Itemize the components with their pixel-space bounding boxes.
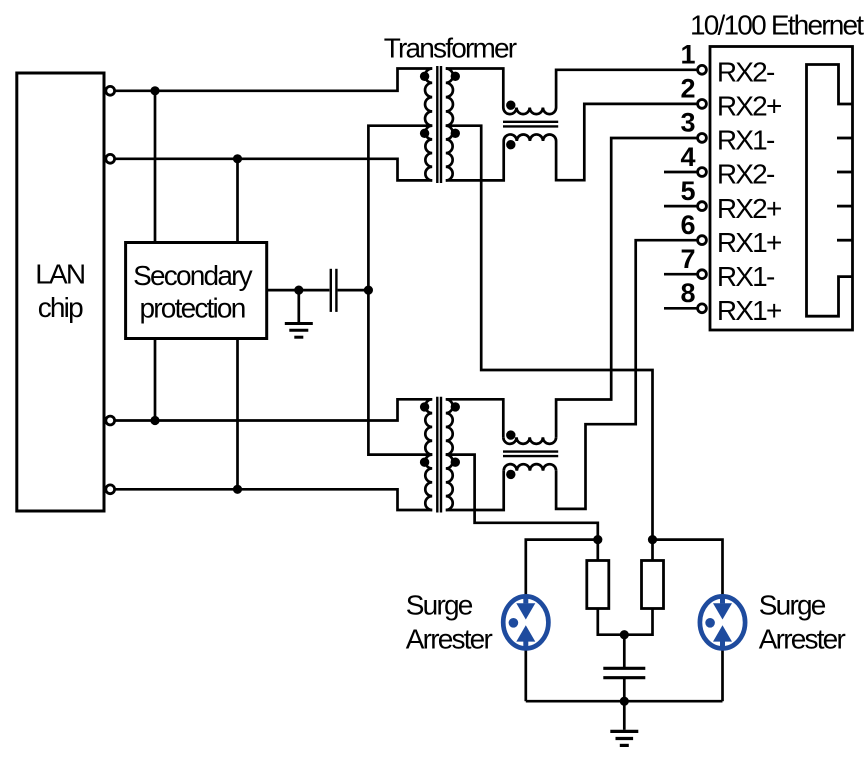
Ethernet connector pin 8 terminal <box>698 304 707 313</box>
pin number 4 <box>680 142 695 172</box>
transformer T2 primary winding top <box>425 399 432 454</box>
svg-text:RX1-: RX1- <box>717 261 775 292</box>
wire stub connector pin 4 <box>664 171 702 174</box>
wire T2 secondary bottom to choke L2 <box>446 471 504 510</box>
choke L1 winding top <box>503 108 556 115</box>
choke L1 polarity dots <box>506 101 515 150</box>
node B junction (right) <box>648 535 657 544</box>
svg-text:Surge: Surge <box>406 589 473 620</box>
wire surge arrester SA2 bottom <box>721 648 724 701</box>
svg-text:Surge: Surge <box>759 589 826 620</box>
pin label RX2- (pin 4) <box>717 159 775 190</box>
wire node B to resistor R2 <box>651 540 654 561</box>
Ethernet connector pin 6 terminal <box>698 236 707 245</box>
secondary protection U2 box <box>126 243 267 339</box>
resistor R1 <box>587 561 609 609</box>
svg-text:RX2+: RX2+ <box>717 91 781 122</box>
wire connector pin 3 to choke L2 top <box>556 138 702 437</box>
svg-text:RX1+: RX1+ <box>717 227 781 258</box>
label Transformer <box>384 32 517 63</box>
svg-text:chip: chip <box>38 292 83 323</box>
LAN chip pin 3 <box>106 416 115 425</box>
ground GND2 <box>610 731 638 745</box>
wire choke L1 top to connector pin 1 <box>556 70 702 108</box>
wire surge arrester SA1 top <box>526 540 598 597</box>
wire T2 secondary top to choke L2 <box>446 399 504 437</box>
svg-text:RX1-: RX1- <box>717 125 775 156</box>
wire secondary protection lower pin B <box>236 339 239 490</box>
RJ45 jack contact profile <box>807 65 853 317</box>
pin number 6 <box>680 210 695 240</box>
LAN chip pin 2 <box>106 154 115 163</box>
node junction ground GND1 <box>294 286 303 295</box>
svg-text:Transformer: Transformer <box>384 32 517 63</box>
capacitor C2 <box>603 668 645 677</box>
wire LAN pin1 to transformer T1 primary top <box>112 69 432 91</box>
svg-text:6: 6 <box>680 210 695 240</box>
wire LAN pin3 to transformer T2 primary top <box>112 399 432 420</box>
svg-text:Arrester: Arrester <box>759 624 846 655</box>
svg-text:8: 8 <box>680 278 695 308</box>
Ethernet connector pin 4 terminal <box>698 168 707 177</box>
wire bottom rail <box>526 700 723 703</box>
pin label RX1- (pin 7) <box>717 261 775 292</box>
transformer T1 secondary winding top <box>446 69 453 126</box>
pin number 5 <box>680 176 695 206</box>
choke L2 polarity dots <box>506 430 515 479</box>
label LAN chip <box>35 258 84 323</box>
transformer T2 secondary winding top <box>446 399 453 454</box>
svg-text:Secondary: Secondary <box>133 260 252 291</box>
wire T1 right center tap to surge node B <box>446 126 653 540</box>
svg-text:RX1+: RX1+ <box>717 295 781 326</box>
node A junction (left) <box>593 535 602 544</box>
svg-text:1: 1 <box>680 40 695 70</box>
ground GND1 stub <box>297 290 300 322</box>
Ethernet connector J1 box <box>710 47 853 331</box>
node junction pin1/protection <box>150 86 159 95</box>
surge arrester SA1 <box>503 596 548 648</box>
wire T1 secondary top to choke L1 <box>446 69 504 108</box>
LAN chip U1 box <box>17 73 104 511</box>
node junction pin2/protection <box>233 154 242 163</box>
transformer T1 primary winding bottom <box>425 126 432 181</box>
transformer T2 core <box>437 397 441 513</box>
transformer T1 secondary winding bottom <box>446 126 453 181</box>
Ethernet connector pin 1 terminal <box>698 65 707 74</box>
node junction pin4/protection <box>233 485 242 494</box>
svg-text:RX2-: RX2- <box>717 159 775 190</box>
wire stub connector pin 7 <box>664 273 702 276</box>
svg-text:protection: protection <box>140 292 245 323</box>
wire connector pin 6 to choke L2 bottom <box>556 240 702 509</box>
wire T2 right center tap to surge node A <box>446 455 598 540</box>
Ethernet connector pin 5 terminal <box>698 202 707 211</box>
svg-text:5: 5 <box>680 176 695 206</box>
transformer T1 core <box>437 66 441 183</box>
svg-text:2: 2 <box>680 74 695 104</box>
svg-text:4: 4 <box>680 142 695 172</box>
ground GND2 stub <box>623 701 626 730</box>
pin label RX2- (pin 1) <box>717 57 775 88</box>
svg-text:LAN: LAN <box>35 258 84 289</box>
pin label RX2+ (pin 5) <box>717 193 781 224</box>
pin number 3 <box>680 108 695 138</box>
transformer T1 polarity dots <box>420 72 460 138</box>
wire secondary protection lower pin A <box>154 339 157 421</box>
label 10/100 Ethernet <box>690 10 864 41</box>
surge arrester SA2 <box>700 596 745 648</box>
resistor R2 <box>642 561 664 609</box>
pin label RX1- (pin 3) <box>717 125 775 156</box>
wire secondary protection upper pin A <box>154 91 157 243</box>
Ethernet connector pin 3 terminal <box>698 134 707 143</box>
node junction capacitor C1 / center-tap rail <box>364 286 373 295</box>
wire secondary protection upper pin B <box>236 159 239 243</box>
svg-text:RX2+: RX2+ <box>717 193 781 224</box>
pin label RX1+ (pin 8) <box>717 295 781 326</box>
wire surge arrester SA1 bottom <box>524 648 527 701</box>
node junction pin3/protection <box>150 416 159 425</box>
svg-text:3: 3 <box>680 108 695 138</box>
transformer T2 secondary winding bottom <box>446 455 453 510</box>
choke L2 winding top <box>503 437 556 444</box>
svg-text:Arrester: Arrester <box>406 624 493 655</box>
wire stub connector pin 5 <box>664 205 702 208</box>
svg-text:RX2-: RX2- <box>717 57 775 88</box>
RJ45 jack contact ticks <box>837 138 853 240</box>
wire resistor bottoms junction <box>598 609 653 635</box>
transformer T2 polarity dots <box>420 402 460 467</box>
pin number 2 <box>680 74 695 104</box>
label Surge Arrester (right) <box>759 589 846 654</box>
wire node A to resistor R1 <box>596 540 599 561</box>
transformer T2 primary winding bottom <box>425 455 432 510</box>
transformer T1 primary winding top <box>425 69 432 126</box>
choke L1 winding bottom <box>504 134 556 141</box>
LAN chip pin 1 <box>106 86 115 95</box>
pin label RX1+ (pin 6) <box>717 227 781 258</box>
Ethernet connector pin 2 terminal <box>698 100 707 109</box>
wire capacitor C2 to bottom rail <box>623 679 626 701</box>
wire LAN pin4 to transformer T2 primary bottom <box>112 489 432 510</box>
pin number 7 <box>680 244 695 274</box>
LAN chip pin 4 <box>106 485 115 494</box>
label Secondary protection <box>133 260 252 323</box>
capacitor C1 <box>331 269 337 312</box>
wire T1 secondary bottom to choke L1 <box>446 141 504 180</box>
wire T1 left center tap down to T2 left center tap <box>368 126 432 455</box>
wire LAN pin2 to transformer T1 primary bottom <box>112 159 432 181</box>
wire stub connector pin 8 <box>664 307 702 310</box>
svg-text:7: 7 <box>680 244 695 274</box>
Ethernet connector pin 7 terminal <box>698 270 707 279</box>
wire choke L1 bottom to connector pin 2 <box>556 104 702 180</box>
wire capacitor C1 to center-tap rail <box>338 289 369 292</box>
wire junction to capacitor C2 <box>623 635 626 667</box>
choke L2 winding bottom <box>504 464 556 471</box>
choke L2 core <box>503 452 558 457</box>
node junction bottom rail <box>620 697 629 706</box>
node junction below resistors <box>620 630 629 639</box>
pin label RX2+ (pin 2) <box>717 91 781 122</box>
wire secondary protection to ground/capacitor node <box>267 289 330 292</box>
label Surge Arrester (left) <box>406 589 493 654</box>
pin number 1 <box>680 40 695 70</box>
pin number 8 <box>680 278 695 308</box>
wire surge arrester SA2 top <box>653 540 723 597</box>
svg-text:10/100 Ethernet: 10/100 Ethernet <box>690 10 864 41</box>
choke L1 core <box>503 122 558 127</box>
ground GND1 <box>285 324 313 338</box>
